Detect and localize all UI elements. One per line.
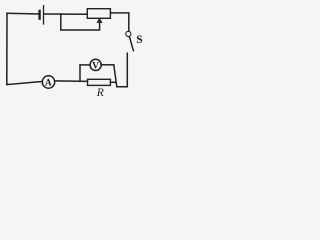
rheostat slider arrow xyxy=(97,18,102,22)
wire bottom-left xyxy=(7,81,43,84)
wire left rail of meter block xyxy=(79,65,81,81)
switch S pivot circle xyxy=(126,31,131,36)
battery B1 xyxy=(40,6,44,24)
svg-text:R: R xyxy=(96,87,104,99)
wire switch down to bottom-right xyxy=(117,53,128,87)
wire resistor R right to rail xyxy=(110,81,116,83)
wire into resistor R left xyxy=(80,80,88,82)
svg-text:S: S xyxy=(136,34,142,46)
wire voltmeter top left xyxy=(80,64,90,66)
rheostat body xyxy=(87,9,110,19)
wire battery to rheostat xyxy=(44,13,87,15)
wire rheostat to switch xyxy=(110,13,128,31)
paper speckles xyxy=(18,9,146,99)
wire top-left xyxy=(7,12,39,15)
svg-text:A: A xyxy=(45,78,52,88)
wire junction drop to slider xyxy=(61,14,100,30)
wire voltmeter top right xyxy=(101,64,114,66)
svg-text:V: V xyxy=(92,61,99,71)
resistor R body xyxy=(88,79,111,85)
wire ammeter to block xyxy=(55,80,80,82)
wire right rail of meter block xyxy=(114,65,117,87)
voltmeter V body xyxy=(90,59,101,70)
switch S blade xyxy=(129,37,133,51)
wire left side xyxy=(6,13,8,84)
ammeter A body xyxy=(42,76,54,88)
